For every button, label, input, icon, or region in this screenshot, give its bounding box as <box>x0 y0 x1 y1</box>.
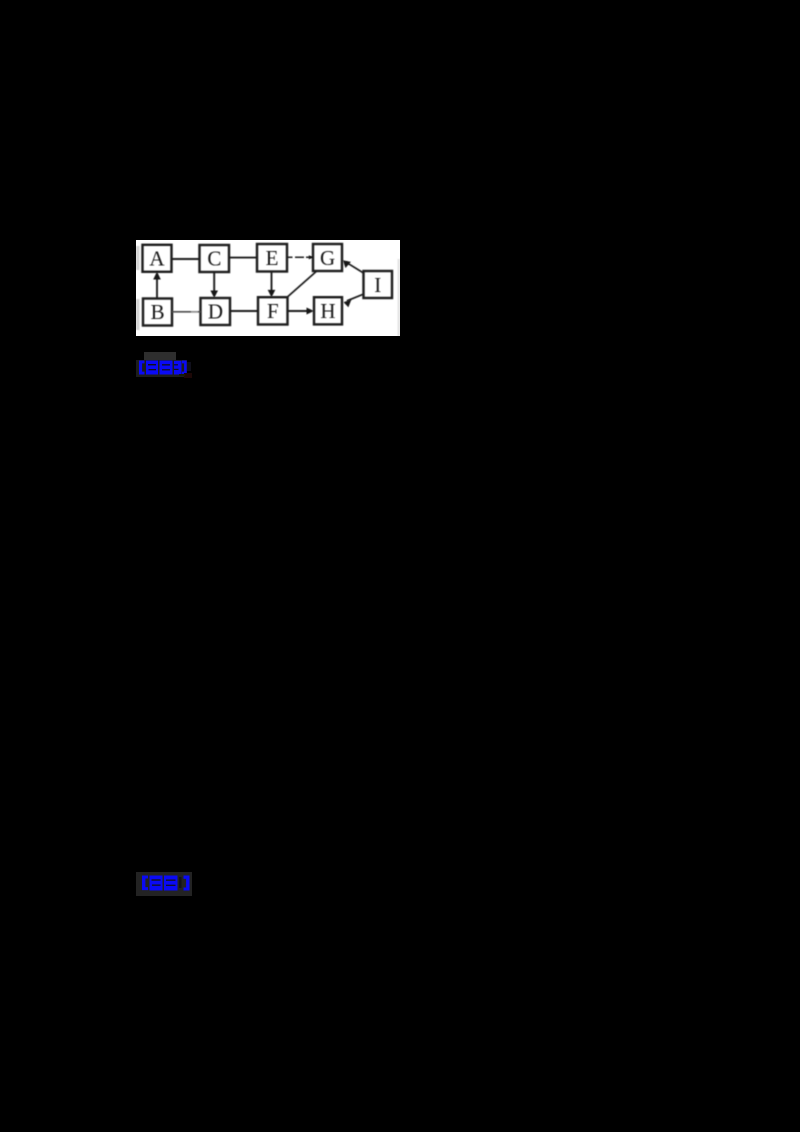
scan edge artifact left <box>136 246 400 336</box>
arrow B to A <box>156 278 158 299</box>
box I <box>364 271 393 298</box>
box G <box>313 244 342 271</box>
figure: scanned flowchart block on white background <box>136 240 400 336</box>
box B <box>143 299 172 326</box>
arrow F to H <box>288 310 309 312</box>
glyph blob 1 <box>146 361 158 375</box>
svg-text:C: C <box>207 247 221 271</box>
wire F-G diagonal <box>287 271 317 298</box>
blue heading 1 (highlighted label on dark bg) <box>144 352 176 360</box>
arrowhead right at H <box>307 308 315 315</box>
arrowhead down at D <box>210 291 218 299</box>
wire D-F <box>230 310 258 312</box>
glyph blob 3 <box>174 361 182 375</box>
arrowhead down at F <box>268 290 276 298</box>
arrow I to H <box>347 294 363 301</box>
wire C-E <box>229 257 257 259</box>
svg-text:D: D <box>208 300 223 324</box>
glyph blob 2 <box>160 361 173 375</box>
arrowhead up at A <box>153 272 161 280</box>
blue heading 2 (highlighted label on dark bg) <box>136 872 193 896</box>
box C <box>200 245 230 272</box>
notches to texture blobs <box>152 879 161 880</box>
glyph blob 2 <box>164 876 178 891</box>
svg-text:H: H <box>320 299 335 323</box>
arrowhead at H from I <box>344 299 352 307</box>
wire E-G (faded/dashed) <box>287 256 312 258</box>
notches to texture blobs <box>148 364 156 365</box>
wire A-C <box>172 258 200 260</box>
arrow E to F <box>271 272 273 292</box>
svg-text:A: A <box>149 247 165 271</box>
arrow I to G <box>346 262 364 273</box>
arrow C to D <box>213 272 215 293</box>
svg-text:G: G <box>320 246 335 270</box>
box H <box>314 297 342 324</box>
arrowhead at G from I <box>343 260 351 268</box>
svg-text:I: I <box>374 273 381 297</box>
bracket right <box>184 876 190 891</box>
glyph blob 1 <box>150 876 163 891</box>
wire B-D faint part <box>191 311 198 313</box>
wire B-D (grayish, fading toward D) <box>172 311 201 313</box>
svg-text:B: B <box>151 300 165 324</box>
bracket left <box>139 361 145 375</box>
svg-text:F: F <box>267 299 279 323</box>
box D <box>201 298 231 325</box>
svg-text:E: E <box>266 246 279 270</box>
bracket left <box>142 876 148 891</box>
box F <box>258 297 288 324</box>
bracket right <box>182 361 187 375</box>
box A <box>143 245 172 272</box>
faint scan smudges after heading 1 <box>184 373 192 378</box>
arrowhead right at G (dashed wire) <box>309 255 313 259</box>
box E <box>257 244 287 272</box>
